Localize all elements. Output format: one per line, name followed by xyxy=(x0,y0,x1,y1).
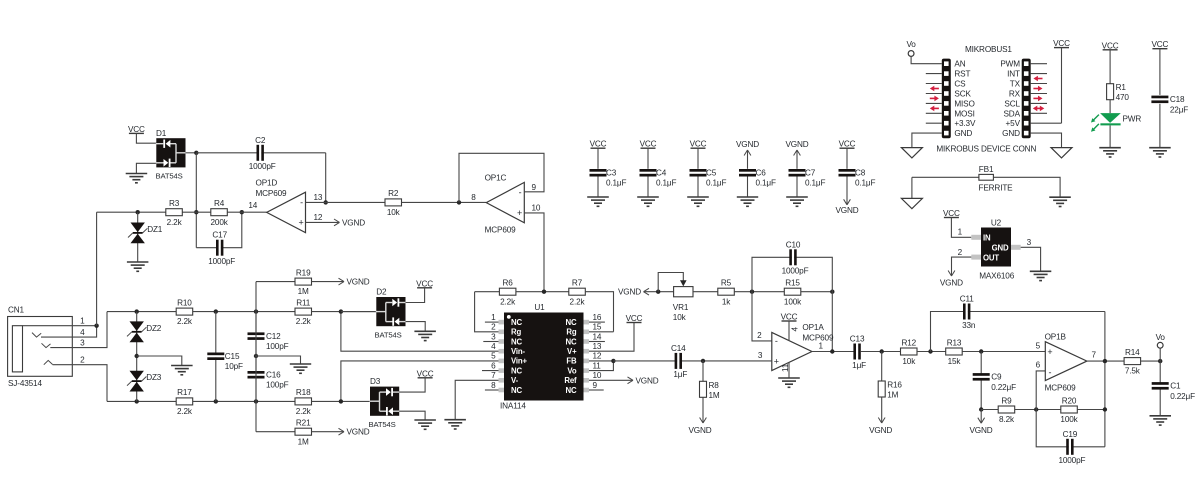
svg-text:NC: NC xyxy=(566,386,577,395)
svg-text:Vin+: Vin+ xyxy=(511,357,528,366)
svg-text:VCC: VCC xyxy=(1151,40,1168,49)
svg-text:1000pF: 1000pF xyxy=(249,162,276,171)
svg-text:OUT: OUT xyxy=(983,253,999,262)
svg-text:C15: C15 xyxy=(225,352,240,361)
svg-text:CN1: CN1 xyxy=(8,306,25,315)
svg-text:R6: R6 xyxy=(503,279,514,288)
svg-text:+: + xyxy=(774,357,779,367)
svg-text:4: 4 xyxy=(791,327,800,332)
svg-text:MIKROBUS DEVICE CONN: MIKROBUS DEVICE CONN xyxy=(936,145,1036,154)
svg-text:BAT54S: BAT54S xyxy=(375,331,402,340)
svg-text:VR1: VR1 xyxy=(673,303,689,312)
svg-text:VCC: VCC xyxy=(416,279,433,288)
svg-text:C9: C9 xyxy=(991,373,1002,382)
svg-text:1μF: 1μF xyxy=(673,370,687,379)
svg-text:AN: AN xyxy=(954,60,965,69)
svg-text:NC: NC xyxy=(511,386,522,395)
svg-text:VCC: VCC xyxy=(626,314,643,323)
svg-text:VGND: VGND xyxy=(785,140,808,149)
svg-text:DZ2: DZ2 xyxy=(146,324,162,333)
svg-text:4: 4 xyxy=(80,328,85,337)
svg-text:V-: V- xyxy=(511,376,519,385)
svg-text:1: 1 xyxy=(819,341,824,350)
svg-text:16: 16 xyxy=(593,313,602,322)
svg-text:C14: C14 xyxy=(671,344,686,353)
svg-text:2.2k: 2.2k xyxy=(570,297,586,306)
svg-text:Vo: Vo xyxy=(906,40,916,49)
svg-text:NC: NC xyxy=(511,366,522,375)
svg-text:2.2k: 2.2k xyxy=(296,407,312,416)
svg-text:VGND: VGND xyxy=(618,288,641,297)
svg-text:U1: U1 xyxy=(534,303,545,312)
svg-text:7: 7 xyxy=(491,371,496,380)
svg-text:C17: C17 xyxy=(212,231,227,240)
svg-text:C18: C18 xyxy=(1170,95,1185,104)
svg-text:VGND: VGND xyxy=(688,426,711,435)
svg-text:470: 470 xyxy=(1116,93,1130,102)
svg-text:BAT54S: BAT54S xyxy=(156,172,183,181)
svg-text:V+: V+ xyxy=(567,347,577,356)
svg-text:VGND: VGND xyxy=(636,376,659,385)
svg-text:13: 13 xyxy=(314,193,323,202)
svg-text:10pF: 10pF xyxy=(225,362,243,371)
svg-text:VGND: VGND xyxy=(869,426,892,435)
svg-text:IN: IN xyxy=(983,234,991,243)
svg-text:GND: GND xyxy=(954,129,972,138)
svg-text:0.1μF: 0.1μF xyxy=(656,179,676,188)
svg-text:10k: 10k xyxy=(387,208,401,217)
svg-text:SJ-43514: SJ-43514 xyxy=(8,379,42,388)
svg-text:100k: 100k xyxy=(1060,415,1078,424)
svg-text:R8: R8 xyxy=(709,381,720,390)
svg-text:1000pF: 1000pF xyxy=(1058,456,1085,465)
svg-text:10: 10 xyxy=(532,203,541,212)
svg-text:3: 3 xyxy=(758,351,763,360)
svg-text:6: 6 xyxy=(1036,360,1041,369)
svg-text:GND: GND xyxy=(1002,129,1020,138)
svg-text:VCC: VCC xyxy=(943,209,960,218)
svg-text:1: 1 xyxy=(491,313,496,322)
svg-text:1000pF: 1000pF xyxy=(782,267,809,276)
svg-text:C6: C6 xyxy=(756,169,767,178)
svg-text:MAX6106: MAX6106 xyxy=(979,272,1015,281)
svg-text:13: 13 xyxy=(593,342,602,351)
svg-text:8: 8 xyxy=(491,381,496,390)
svg-text:C3: C3 xyxy=(606,169,617,178)
svg-text:R12: R12 xyxy=(902,338,917,347)
svg-text:10k: 10k xyxy=(673,313,687,322)
svg-text:0.1μF: 0.1μF xyxy=(756,179,776,188)
svg-text:NC: NC xyxy=(566,318,577,327)
svg-text:-: - xyxy=(775,336,778,346)
svg-text:R18: R18 xyxy=(296,388,311,397)
svg-text:OP1D: OP1D xyxy=(256,179,278,188)
svg-text:0.1μF: 0.1μF xyxy=(706,179,726,188)
svg-text:-: - xyxy=(519,188,522,198)
svg-text:R19: R19 xyxy=(296,268,311,277)
svg-text:D3: D3 xyxy=(370,377,381,386)
svg-text:R13: R13 xyxy=(947,338,962,347)
svg-text:VCC: VCC xyxy=(417,369,434,378)
svg-text:+: + xyxy=(517,208,522,218)
svg-text:8: 8 xyxy=(471,193,476,202)
svg-text:FB: FB xyxy=(566,357,577,366)
svg-text:2: 2 xyxy=(80,355,85,364)
svg-text:VGND: VGND xyxy=(347,278,370,287)
svg-text:VCC: VCC xyxy=(640,140,657,149)
svg-text:+: + xyxy=(1047,347,1052,357)
svg-text:OP1B: OP1B xyxy=(1045,332,1067,341)
svg-text:0.22μF: 0.22μF xyxy=(1170,392,1195,401)
svg-text:1k: 1k xyxy=(722,297,731,306)
svg-text:11: 11 xyxy=(593,361,602,370)
svg-text:C1: C1 xyxy=(1170,382,1181,391)
svg-text:CS: CS xyxy=(954,80,966,89)
svg-text:U2: U2 xyxy=(991,218,1002,227)
svg-text:MISO: MISO xyxy=(954,99,974,108)
svg-text:200k: 200k xyxy=(211,218,229,227)
svg-text:Vo: Vo xyxy=(567,366,576,375)
svg-text:NC: NC xyxy=(511,318,522,327)
svg-text:0.22μF: 0.22μF xyxy=(991,383,1016,392)
svg-text:MCP609: MCP609 xyxy=(256,189,288,198)
svg-text:VGND: VGND xyxy=(342,218,365,227)
svg-text:R14: R14 xyxy=(1125,348,1140,357)
svg-text:MIKROBUS1: MIKROBUS1 xyxy=(965,45,1012,54)
svg-text:R7: R7 xyxy=(572,279,583,288)
svg-text:14: 14 xyxy=(593,332,602,341)
svg-text:C2: C2 xyxy=(255,136,266,145)
svg-text:RST: RST xyxy=(954,70,970,79)
svg-text:2: 2 xyxy=(757,331,762,340)
svg-text:12: 12 xyxy=(593,352,602,361)
svg-text:VCC: VCC xyxy=(128,125,145,134)
svg-text:R4: R4 xyxy=(214,199,225,208)
svg-text:R3: R3 xyxy=(169,199,180,208)
svg-text:100k: 100k xyxy=(784,297,802,306)
svg-text:10k: 10k xyxy=(902,357,916,366)
svg-text:100pF: 100pF xyxy=(266,381,289,390)
svg-text:R21: R21 xyxy=(296,419,311,428)
svg-text:+: + xyxy=(298,218,303,228)
svg-text:PWM: PWM xyxy=(1000,60,1020,69)
svg-text:0.1μF: 0.1μF xyxy=(855,179,875,188)
svg-text:R1: R1 xyxy=(1116,83,1127,92)
svg-text:VGND: VGND xyxy=(736,140,759,149)
svg-text:Vin-: Vin- xyxy=(511,347,526,356)
svg-text:R15: R15 xyxy=(785,279,800,288)
svg-text:15k: 15k xyxy=(948,357,962,366)
svg-text:2.2k: 2.2k xyxy=(296,317,312,326)
svg-text:1: 1 xyxy=(958,228,963,237)
svg-text:FB1: FB1 xyxy=(979,165,994,174)
svg-text:1M: 1M xyxy=(887,391,898,400)
svg-text:7: 7 xyxy=(1092,350,1097,359)
svg-text:9: 9 xyxy=(593,381,598,390)
svg-text:GND: GND xyxy=(992,244,1009,253)
svg-text:R17: R17 xyxy=(177,388,192,397)
svg-text:VCC: VCC xyxy=(690,140,707,149)
svg-text:C7: C7 xyxy=(805,169,816,178)
svg-text:R9: R9 xyxy=(1001,396,1012,405)
svg-text:-: - xyxy=(300,197,303,207)
svg-text:RX: RX xyxy=(1009,90,1021,99)
svg-text:R2: R2 xyxy=(388,189,399,198)
svg-text:VCC: VCC xyxy=(590,140,607,149)
svg-text:SDA: SDA xyxy=(1004,109,1021,118)
svg-text:33n: 33n xyxy=(962,321,976,330)
svg-text:5: 5 xyxy=(491,352,496,361)
svg-text:C10: C10 xyxy=(786,240,801,249)
svg-text:1: 1 xyxy=(80,316,85,325)
svg-text:2.2k: 2.2k xyxy=(500,297,516,306)
svg-text:C13: C13 xyxy=(850,335,865,344)
svg-text:2.2k: 2.2k xyxy=(177,407,193,416)
svg-text:2.2k: 2.2k xyxy=(167,218,183,227)
svg-text:C8: C8 xyxy=(855,169,866,178)
svg-text:C16: C16 xyxy=(266,371,281,380)
svg-text:R16: R16 xyxy=(887,381,902,390)
svg-text:-: - xyxy=(1048,367,1051,377)
svg-text:VCC: VCC xyxy=(1102,41,1119,50)
svg-text:VGND: VGND xyxy=(969,426,992,435)
svg-text:D2: D2 xyxy=(376,288,387,297)
svg-text:R10: R10 xyxy=(177,298,192,307)
svg-text:SCL: SCL xyxy=(1004,99,1020,108)
svg-text:TX: TX xyxy=(1010,80,1021,89)
svg-text:MCP609: MCP609 xyxy=(485,226,517,235)
svg-text:100pF: 100pF xyxy=(266,342,289,351)
svg-text:Ref: Ref xyxy=(564,376,577,385)
svg-text:3: 3 xyxy=(80,338,85,347)
svg-text:C19: C19 xyxy=(1063,430,1078,439)
svg-text:R5: R5 xyxy=(721,279,732,288)
svg-text:NC: NC xyxy=(566,337,577,346)
svg-text:VCC: VCC xyxy=(1053,39,1070,48)
svg-text:D1: D1 xyxy=(156,129,167,138)
svg-text:+5V: +5V xyxy=(1006,119,1021,128)
svg-text:PWR: PWR xyxy=(1123,115,1142,124)
svg-text:C11: C11 xyxy=(960,295,975,304)
svg-text:C12: C12 xyxy=(266,332,281,341)
svg-text:VCC: VCC xyxy=(781,313,798,322)
svg-text:C5: C5 xyxy=(706,169,717,178)
svg-text:1M: 1M xyxy=(709,391,720,400)
svg-text:10: 10 xyxy=(593,371,602,380)
svg-text:VCC: VCC xyxy=(839,140,856,149)
svg-text:INA114: INA114 xyxy=(500,402,526,411)
svg-text:MCP609: MCP609 xyxy=(1045,383,1077,392)
svg-text:8.2k: 8.2k xyxy=(999,415,1015,424)
svg-text:1μF: 1μF xyxy=(852,361,866,370)
svg-text:DZ3: DZ3 xyxy=(146,373,162,382)
svg-text:0.1μF: 0.1μF xyxy=(805,179,825,188)
svg-text:VGND: VGND xyxy=(347,428,370,437)
svg-text:1M: 1M xyxy=(298,437,309,446)
svg-text:DZ1: DZ1 xyxy=(147,225,163,234)
svg-text:2: 2 xyxy=(491,323,496,332)
svg-text:3: 3 xyxy=(1027,238,1032,247)
svg-text:1M: 1M xyxy=(298,287,309,296)
svg-text:C4: C4 xyxy=(656,169,667,178)
svg-text:15: 15 xyxy=(593,323,602,332)
svg-text:OP1A: OP1A xyxy=(802,323,824,332)
svg-text:NC: NC xyxy=(511,337,522,346)
svg-text:0.1μF: 0.1μF xyxy=(606,179,626,188)
svg-text:R20: R20 xyxy=(1062,396,1077,405)
svg-text:14: 14 xyxy=(248,201,257,210)
svg-text:OP1C: OP1C xyxy=(485,174,507,183)
svg-text:VGND: VGND xyxy=(940,279,963,288)
svg-text:1000pF: 1000pF xyxy=(208,257,235,266)
svg-text:R11: R11 xyxy=(296,298,311,307)
svg-text:12: 12 xyxy=(314,213,323,222)
svg-text:22μF: 22μF xyxy=(1170,105,1188,114)
svg-text:3: 3 xyxy=(491,332,496,341)
svg-text:BAT54S: BAT54S xyxy=(369,420,396,429)
svg-text:4: 4 xyxy=(491,342,496,351)
svg-text:MOSI: MOSI xyxy=(954,109,974,118)
svg-text:9: 9 xyxy=(532,183,537,192)
svg-text:5: 5 xyxy=(1036,341,1041,350)
svg-text:SCK: SCK xyxy=(954,90,971,99)
svg-text:VGND: VGND xyxy=(835,206,858,215)
svg-text:Rg: Rg xyxy=(511,328,521,337)
svg-text:6: 6 xyxy=(491,361,496,370)
svg-text:INT: INT xyxy=(1007,70,1020,79)
svg-text:2.2k: 2.2k xyxy=(177,317,193,326)
svg-text:Vo: Vo xyxy=(1156,333,1166,342)
svg-text:2: 2 xyxy=(958,248,963,257)
svg-text:+3.3V: +3.3V xyxy=(954,119,976,128)
svg-text:7.5k: 7.5k xyxy=(1125,367,1141,376)
svg-text:11: 11 xyxy=(781,363,790,372)
svg-text:FERRITE: FERRITE xyxy=(979,184,1014,193)
svg-text:Rg: Rg xyxy=(566,328,576,337)
